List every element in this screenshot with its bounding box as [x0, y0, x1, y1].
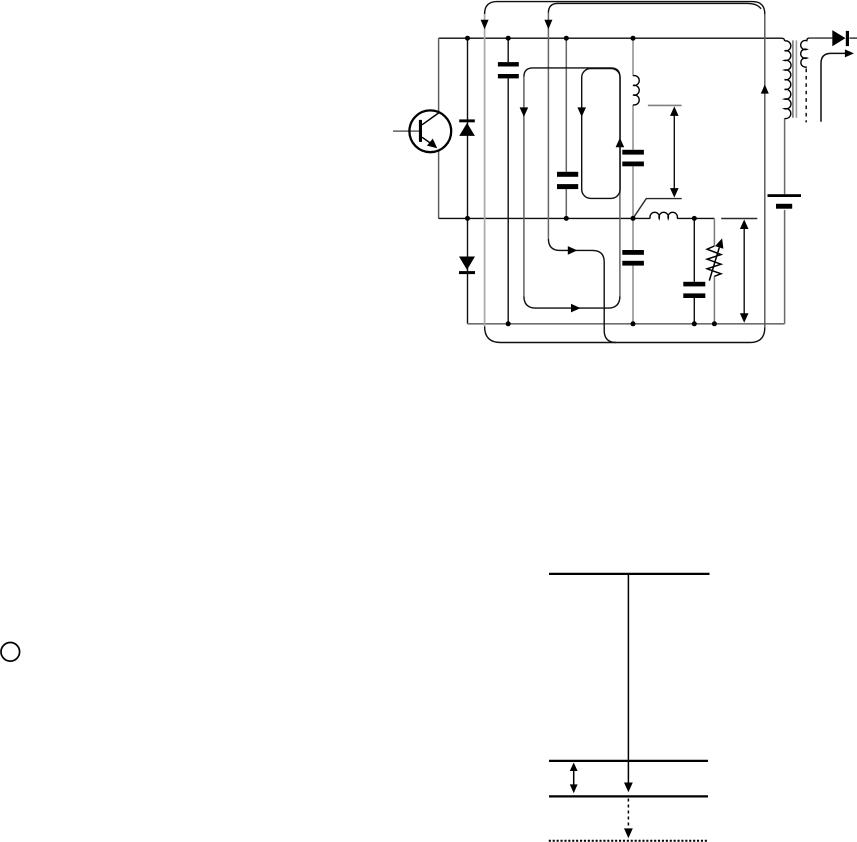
varistor VR1 diagonal arrow	[709, 248, 719, 281]
timing diagram: top level line T1	[549, 573, 710, 575]
current loop: big outer loop left side	[484, 14, 486, 327]
timing diagram: small double arrow between T2 and T3	[573, 768, 575, 786]
arrow on middle loop bottom (right)	[571, 304, 581, 313]
dimension: yoke voltage top bar	[648, 104, 682, 106]
wire: damper diode branch, top bus to middle bus	[467, 38, 469, 218]
wire: transistor base lead	[393, 130, 419, 132]
capacitor C1 (retrace cap) plates	[498, 62, 519, 66]
current loop: path B (top line, down left of C2, right, down, to bottom line)	[548, 3, 761, 13]
wire: secondary to EHT diode	[809, 37, 832, 39]
arrow on middle loop left side (down)	[520, 107, 529, 117]
damper diode D1 cathode bar	[459, 119, 475, 122]
wire: C3 to middle bus	[632, 166, 634, 218]
dimension: yoke voltage double arrow	[673, 112, 675, 193]
wire: varistor branch corner from middle bus	[713, 218, 715, 246]
current loop: inner rounded rect	[582, 69, 620, 199]
junction: bottom bus / C4	[631, 321, 636, 326]
wire: top bus with corner into transformer primary	[439, 38, 785, 41]
diode D3 cathode bar	[846, 31, 849, 46]
diode D2 cathode bar	[459, 271, 475, 274]
wire: left side emitter segment (transistor to middle bus)	[438, 151, 440, 219]
wire: yoke to capacitor C3	[632, 105, 634, 150]
junction: top bus / yoke	[631, 36, 636, 41]
junction: bottom bus / C5	[692, 321, 697, 326]
wire: retrace capacitor C1 upper lead	[507, 38, 509, 62]
transformer T1 primary winding (8 bumps, bulge right)	[785, 41, 791, 119]
transistor Q1 base bar	[419, 120, 422, 142]
arrow on path B (down, near top)	[544, 20, 552, 30]
transistor Q1 collector diagonal	[422, 113, 439, 125]
arrow on middle loop right side (up)	[616, 138, 625, 148]
current loop: middle loop bottom edge	[524, 296, 620, 308]
junction: top bus / D1	[465, 36, 470, 41]
arrow on big loop right side (up)	[761, 84, 769, 93]
current loop: middle loop top edge	[524, 68, 620, 77]
wire: battery top to transformer primary bottom	[784, 118, 786, 194]
current loop: big outer loop bottom edge	[485, 327, 765, 343]
junction: middle bus / C5	[692, 216, 697, 221]
wire: capacitor C2 upper lead	[565, 38, 567, 172]
battery B+ short thick plate	[776, 204, 792, 209]
battery B+ long plate	[768, 194, 802, 197]
wire: D2 branch, middle bus to bottom bus left corner	[467, 218, 469, 323]
arrow on inner loop left side (down)	[577, 107, 586, 117]
current loop: big outer loop right side	[764, 14, 766, 328]
varistor VR1 zigzag	[707, 246, 721, 276]
current loop: big outer loop top edge	[485, 2, 765, 14]
capacitor C3 plates	[622, 150, 644, 155]
junction: middle bus / yoke-C4	[631, 216, 636, 221]
wire: middle bus left part	[439, 217, 651, 219]
wire: middle bus to capacitor C4	[632, 218, 634, 250]
diode D2 triangle (pointing down)	[459, 257, 475, 270]
dimension: right side top bar	[721, 218, 757, 220]
wire: bottom bus right corner up to battery	[784, 210, 786, 324]
wire: retrace capacitor C1 lower lead to bottom bus	[507, 78, 509, 323]
timing diagram: level line T3	[549, 795, 708, 797]
capacitor C2 plates	[557, 172, 578, 177]
node: terminal circle at left	[1, 643, 20, 662]
timing diagram: dotted bottom reference line	[549, 840, 709, 842]
junction: middle bus / D1-D2	[465, 216, 470, 221]
timing diagram: dotted vertical arrow below T3	[627, 799, 629, 831]
timing diagram: main vertical arrow	[627, 574, 629, 787]
timing diagram: level line T2	[549, 760, 708, 762]
dimension: right side double arrow	[743, 225, 745, 319]
junction: top bus / C2	[564, 36, 569, 41]
wire: C5 lower lead	[693, 298, 695, 324]
junction: bottom bus / varistor	[712, 321, 717, 326]
wire: capacitor C5 upper lead	[693, 218, 695, 281]
wire: varistor lower lead	[713, 276, 715, 324]
inductor L2 linearity coil (3 bumps above middle bus)	[650, 212, 677, 218]
wire: bottom bus	[468, 323, 785, 325]
wire: capacitor C2 lower lead	[565, 189, 567, 218]
transistor Q1 emitter diagonal with arrowhead	[422, 137, 433, 145]
transformer T1 secondary winding (3 bumps, bulge left) with top corner	[801, 38, 810, 67]
diode D3 (EHT rectifier) triangle	[832, 30, 845, 46]
arrow on path B (right, on y=250 segment)	[568, 246, 578, 255]
current loop: middle loop left side	[523, 77, 525, 296]
transformer T1 core lines	[792, 40, 794, 117]
junction: top bus / C1	[506, 36, 511, 41]
damper diode D1 triangle (pointing up)	[459, 123, 475, 136]
junction: middle bus / C2	[564, 216, 569, 221]
capacitor C5 plates	[683, 282, 705, 287]
current loop: middle loop right side	[619, 77, 621, 296]
wire: D3 output lead	[849, 37, 857, 39]
hook arrow: HV output current indicator	[821, 53, 845, 121]
arrow on big loop left side (down)	[481, 20, 489, 30]
transformer T1 secondary dashed continuation	[805, 69, 807, 123]
inductor L1 deflection yoke coil (3 bumps, bulge right)	[633, 76, 639, 105]
capacitor C4 plates	[622, 250, 644, 255]
wire: middle bus right part (after linearity coil)	[677, 217, 714, 219]
transistor Q1 body circle	[409, 110, 451, 152]
wire: yoke branch upper lead	[632, 38, 634, 75]
dimension: yoke voltage bottom bar with diagonal to junction	[633, 199, 682, 219]
junction: bottom bus / C1	[506, 321, 511, 326]
wire: left side collector segment (top bus to transistor)	[438, 38, 440, 112]
wire: C4 to bottom bus	[632, 266, 634, 324]
